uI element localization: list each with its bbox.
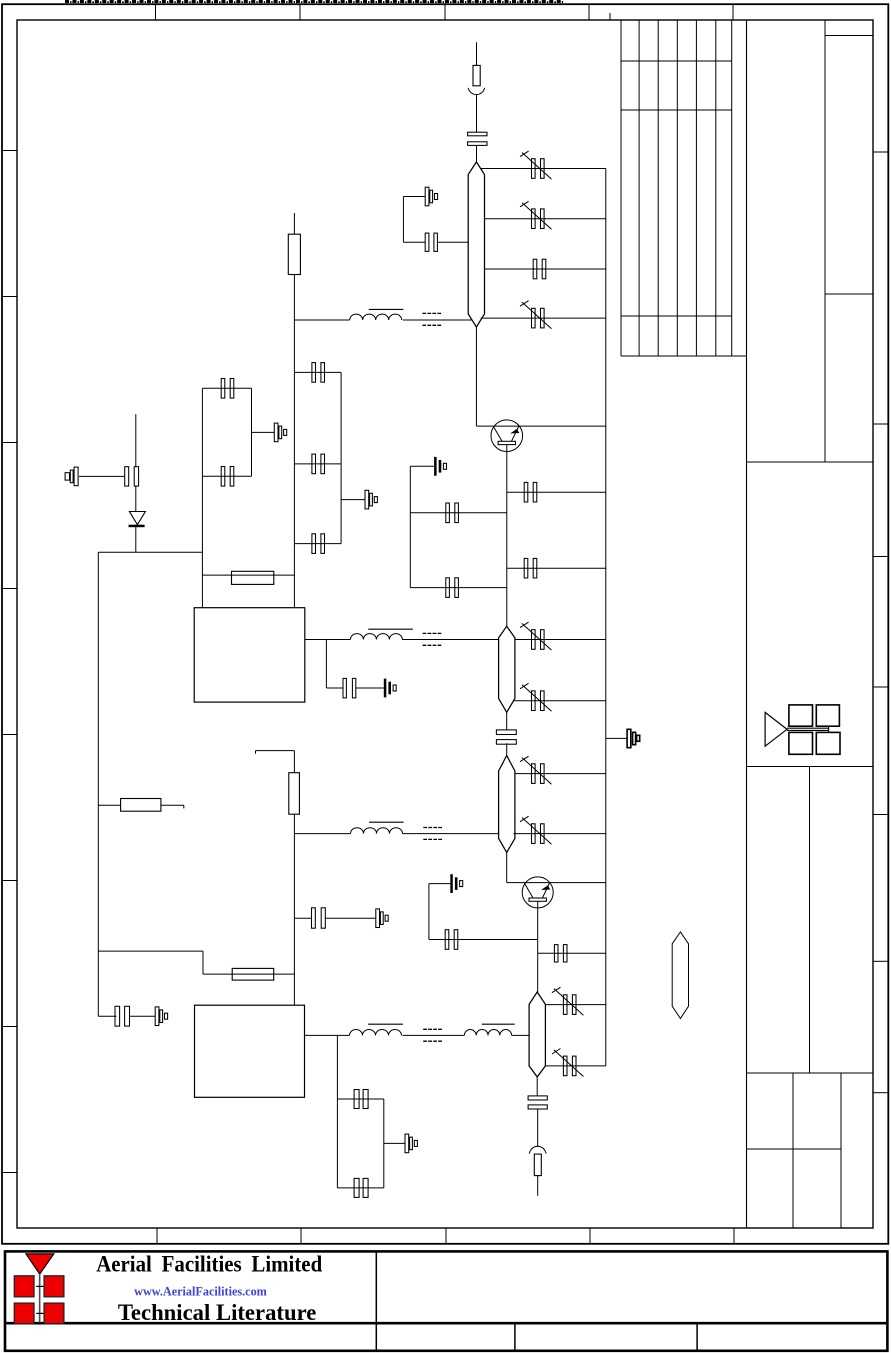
svg-text:www.AerialFacilities.com: www.AerialFacilities.com xyxy=(134,1284,267,1298)
wire to C3 xyxy=(403,241,425,243)
wire output shunt drop xyxy=(336,1035,338,1188)
wire C3 to RES1 xyxy=(437,241,468,243)
secondary dashes 4 xyxy=(423,1029,442,1041)
capacitor C17 xyxy=(115,1006,130,1026)
wire Q1 emitter down xyxy=(506,445,508,626)
wire rail to C17 xyxy=(98,1015,116,1017)
capacitor C13 xyxy=(312,534,325,554)
trimmer capacitor CT4 xyxy=(365,490,377,509)
wire RES1 tap 3 to bus xyxy=(484,268,605,270)
capacitor C14 xyxy=(343,678,356,698)
wire R3 node to L3 xyxy=(294,833,350,835)
capacitor C12 xyxy=(312,454,325,474)
wire stub above R1 xyxy=(293,213,295,234)
wire RES1 tap 4 to bus xyxy=(481,317,606,319)
capacitor C7 xyxy=(524,558,537,578)
inductor L5 xyxy=(464,1030,511,1036)
resonator RES5 (spare stub) xyxy=(672,932,688,1019)
wire RES4 tap 1 to bus xyxy=(545,1004,605,1006)
svg-text:Technical Literature: Technical Literature xyxy=(118,1300,316,1325)
coupling capacitor C1 xyxy=(468,132,487,145)
capacitor C19 xyxy=(554,945,567,962)
resistor R4 xyxy=(121,799,161,812)
wire loop left side xyxy=(402,197,404,243)
wire R4 row xyxy=(98,804,120,806)
variable capacitor CV2 xyxy=(520,201,552,229)
resonator RES1 (cavity line) xyxy=(468,162,484,327)
capacitor C20 xyxy=(354,1090,368,1109)
secondary winding dashes xyxy=(422,313,441,325)
variable capacitor CV1 xyxy=(520,151,552,179)
core line L5 xyxy=(482,1023,515,1025)
capacitor C10 xyxy=(221,467,234,487)
wire R5 column xyxy=(202,951,204,974)
capacitor C5 xyxy=(446,578,459,598)
title block column xyxy=(747,20,874,1228)
wire Q2 bias cap row xyxy=(429,939,538,941)
variable capacitor CV8 xyxy=(552,987,584,1015)
wire bias cap row 2 xyxy=(410,587,507,589)
transistor Q1 xyxy=(491,420,523,452)
inter-resonator capacitor C15 xyxy=(496,730,516,744)
wire Q1 output cap row 2 xyxy=(507,567,606,569)
wire bias loop left side xyxy=(409,466,411,587)
wire trimmer stub B xyxy=(252,431,275,433)
inductor L4 xyxy=(350,1030,402,1036)
wire tee to R3 xyxy=(293,751,295,773)
wire loop C top xyxy=(294,371,341,373)
inductor L1 xyxy=(350,314,402,320)
wire bias cap row 1 xyxy=(410,512,507,514)
wire bus trimmer stub xyxy=(606,737,627,739)
trimmer capacitor CT6 xyxy=(627,729,640,747)
wire R1 node to L1 xyxy=(294,319,349,321)
variable capacitor CV6 xyxy=(520,756,552,784)
wire R1 down spine xyxy=(293,275,295,608)
wire C15 to RES3 xyxy=(506,743,508,755)
wire shunt loop bottom xyxy=(337,1187,383,1189)
wire RES2 to C15 xyxy=(506,712,508,730)
trimmer capacitor CT10 xyxy=(405,1134,417,1153)
wire C8 to D1 xyxy=(135,486,137,511)
output capacitor C22 xyxy=(528,1096,547,1109)
module box U1 xyxy=(194,608,305,702)
resistor R5 xyxy=(232,968,274,980)
trimmer capacitor CT8 xyxy=(155,1007,167,1026)
AFL logo mark xyxy=(14,1254,64,1324)
wire C1 to resonator RES1 xyxy=(476,145,478,162)
resonator RES2 xyxy=(499,626,515,712)
trimmer capacitor CT1 xyxy=(425,187,437,206)
capacitor C11 xyxy=(312,363,325,383)
resonator RES4 xyxy=(529,992,545,1077)
variable capacitor CV7 xyxy=(520,816,552,844)
trimmer capacitor CT7 xyxy=(376,909,388,928)
core line L3 xyxy=(369,821,404,823)
connector J3 body xyxy=(534,1154,541,1176)
wire RES1 base down xyxy=(475,327,477,426)
wire left rail xyxy=(97,552,99,1016)
wire RES3 tap 1 to bus xyxy=(515,773,606,775)
wire loop B bottom xyxy=(202,475,251,477)
wire R2 row xyxy=(202,574,294,576)
capacitor C21 xyxy=(354,1178,368,1197)
wire C16 row xyxy=(294,917,311,919)
capacitor C16 xyxy=(312,908,326,928)
wire stub above diode xyxy=(135,414,137,467)
wire C22 to J3 xyxy=(537,1109,539,1147)
wire R4 tail xyxy=(161,804,184,806)
capacitor C4 xyxy=(446,503,459,523)
svg-text:Aerial Facilities Limited: Aerial Facilities Limited xyxy=(96,1252,322,1277)
capacitor C2 xyxy=(533,259,546,279)
wire RES1 tap 1 to bus xyxy=(481,168,606,170)
wire RES2 tap 2 to bus xyxy=(514,700,606,702)
connector J1 body xyxy=(473,65,480,85)
wire R4 tail tick xyxy=(183,805,185,808)
wire D1 to node xyxy=(135,527,137,552)
resonator RES3 xyxy=(499,756,515,853)
capacitor C9 xyxy=(221,379,234,399)
wire trimmer stub xyxy=(403,196,425,198)
wire output stub xyxy=(537,1176,539,1196)
wire loop B top xyxy=(202,387,251,389)
wire Q2 collector row xyxy=(507,882,606,884)
feedthrough trimmer CT2 xyxy=(434,457,446,476)
module box U2 xyxy=(195,1005,305,1097)
feedthrough trimmer CT5 xyxy=(384,679,396,698)
wire L2 to RES2 xyxy=(402,639,499,641)
diode D1 xyxy=(129,512,146,528)
wire loop C bottom xyxy=(294,543,341,545)
connector J3 socket arc xyxy=(529,1146,546,1153)
wire L3 to RES3 xyxy=(403,833,499,835)
wire rail to R5 column xyxy=(98,950,203,952)
wire loop C mid xyxy=(294,463,341,465)
core line L2 xyxy=(368,628,413,630)
feedthrough trimmer CT9 xyxy=(450,874,462,893)
wire collector row Q1 xyxy=(476,425,605,427)
wire U1 out to L2 xyxy=(305,639,351,641)
variable capacitor CV5 xyxy=(520,683,552,711)
transistor Q2 xyxy=(522,877,553,908)
wire shunt loop top xyxy=(337,1098,383,1100)
variable capacitor CV9 xyxy=(552,1049,584,1077)
wire loop C right side xyxy=(340,372,342,543)
core line L4 xyxy=(368,1023,403,1025)
connector J1 socket arc xyxy=(468,88,485,95)
wire L4 to L5 xyxy=(403,1034,465,1036)
wire input stub xyxy=(476,42,478,65)
wire Q2 bias left side xyxy=(428,884,430,940)
wire Q2 output cap row xyxy=(538,952,606,954)
wire Q2 emitter down xyxy=(537,901,539,992)
wire C16 to CT7 xyxy=(325,917,376,919)
wire shunt cap row xyxy=(326,687,343,689)
resistor R1 xyxy=(288,234,300,274)
title block frame xyxy=(5,1251,887,1350)
revision table grid xyxy=(621,20,747,356)
capacitor C6 xyxy=(524,482,537,502)
inductor L2 xyxy=(350,634,402,640)
secondary dashes 3 xyxy=(423,828,442,840)
wire bias tee top xyxy=(256,750,295,752)
secondary dashes 2 xyxy=(423,633,442,645)
wire C17 to CT8 xyxy=(130,1015,156,1017)
wire RES1 tap 2 to bus xyxy=(484,218,605,220)
wire U2 out to L4 xyxy=(305,1034,350,1036)
wire J1 to C1 xyxy=(476,95,478,133)
wire trimmer stub bottom xyxy=(384,1142,405,1144)
wire RES4 to C22 xyxy=(536,1077,538,1096)
wire RES4 tap 2 to bus xyxy=(545,1065,605,1067)
AFL logo (sideways antenna mark) xyxy=(765,705,840,754)
wire RES3 to Q2 row xyxy=(506,852,508,882)
wire shunt loop right side xyxy=(383,1099,385,1188)
wire loop B left side xyxy=(201,388,203,607)
core line L1 xyxy=(369,308,404,310)
capacitor C8 xyxy=(125,467,139,486)
trimmer capacitor CT3 xyxy=(274,423,286,442)
wire loop B right side xyxy=(251,388,253,476)
wire L1 to RES1 base xyxy=(403,319,472,321)
wire J2 to C8 xyxy=(79,475,125,477)
resistor R2 xyxy=(232,571,274,584)
wire Q1 output cap row 1 xyxy=(507,491,606,493)
wire L5 to RES4 xyxy=(512,1034,529,1036)
inductor L3 xyxy=(351,828,403,834)
bus wire (right vertical) xyxy=(605,169,607,1066)
wire shunt drop xyxy=(325,640,327,689)
capacitor C18 xyxy=(445,930,458,950)
wire Q1 ground stub xyxy=(410,465,434,467)
variable capacitor CV3 xyxy=(520,301,552,329)
wire RES3 tap 2 to bus xyxy=(514,833,606,835)
wire trimmer stub C xyxy=(341,499,365,501)
wire RES2 tap 1 to bus xyxy=(515,639,606,641)
wire tee end tick xyxy=(255,751,257,754)
wire C14 to CT5 xyxy=(356,687,384,689)
resistor R3 xyxy=(289,773,300,815)
wire node row xyxy=(98,551,202,553)
variable capacitor CV4 xyxy=(520,622,552,650)
capacitor C3 xyxy=(425,233,437,251)
wire R3 down spine xyxy=(293,814,295,1005)
connector J2 (feedthrough) xyxy=(65,467,78,486)
wire R5 row xyxy=(203,973,294,975)
wire Q2 ground stub xyxy=(429,883,450,885)
